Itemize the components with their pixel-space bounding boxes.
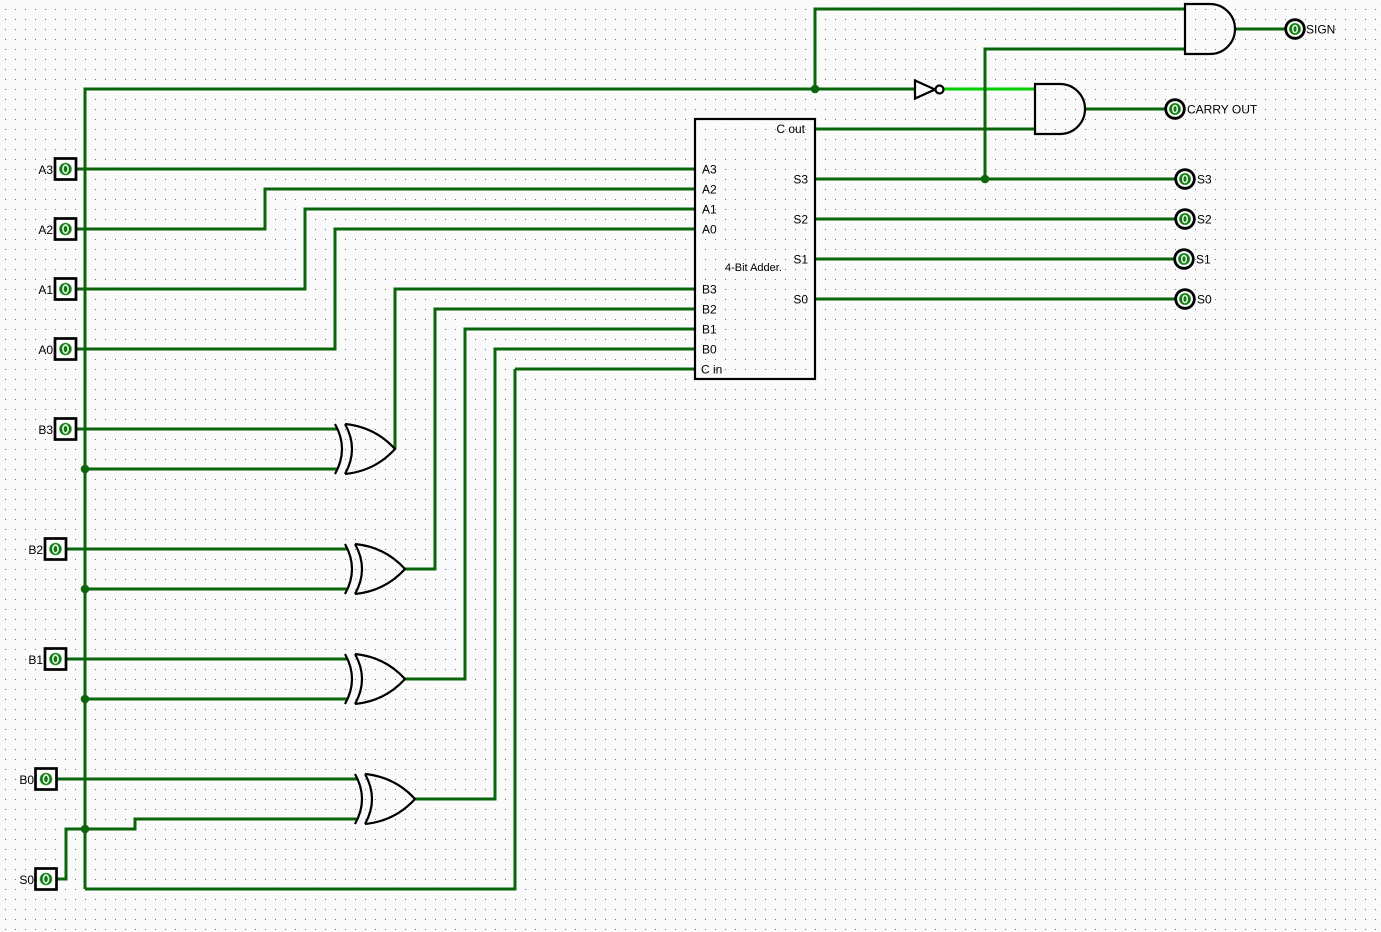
- xor gate U5 (B0): [355, 774, 415, 824]
- and gate U7 (CARRY OUT): [1035, 84, 1085, 134]
- output pin S3: [1176, 170, 1195, 189]
- svg-text:B3: B3: [38, 423, 53, 437]
- wire S0 vertical x=66: [65, 828, 68, 881]
- wire S1: [815, 258, 1176, 261]
- wire A1 h2: [305, 208, 696, 211]
- svg-text:C out: C out: [776, 122, 805, 136]
- junction bus XOR2 input: [81, 585, 90, 594]
- input pin B2: [45, 539, 66, 560]
- input pin B0: [36, 769, 57, 790]
- svg-text:A2: A2: [702, 183, 717, 197]
- svg-text:S0: S0: [19, 873, 34, 887]
- svg-text:A1: A1: [38, 283, 53, 297]
- wire A1 h1: [76, 288, 305, 291]
- wire XOR3 lower input: [85, 698, 347, 701]
- svg-text:S0: S0: [793, 293, 808, 307]
- svg-text:A3: A3: [702, 163, 717, 177]
- output pin SIGN: [1286, 20, 1305, 39]
- svg-text:B2: B2: [702, 303, 717, 317]
- output pin S2: [1176, 210, 1195, 229]
- wire XOR4 output h: [415, 798, 497, 801]
- wire XOR1 lower input: [85, 468, 337, 471]
- svg-text:A2: A2: [38, 223, 53, 237]
- wire S2: [815, 218, 1176, 221]
- wire S0 stub: [56, 878, 68, 881]
- wire XOR3 to adder B1: [465, 328, 696, 331]
- wire XOR2 output h: [405, 568, 437, 571]
- svg-text:S3: S3: [1197, 173, 1212, 187]
- svg-text:4-Bit Adder.: 4-Bit Adder.: [725, 262, 782, 274]
- wire C out to AND2: [815, 128, 1035, 131]
- wire C-in vertical x=515: [514, 369, 517, 891]
- svg-text:A1: A1: [702, 203, 717, 217]
- input pin A0: [55, 339, 76, 360]
- svg-text:B0: B0: [702, 343, 717, 357]
- junction S3 x=985: [981, 175, 990, 184]
- svg-text:S1: S1: [1196, 253, 1211, 267]
- wire XOR3 output vertical x=465: [464, 328, 467, 681]
- svg-text:CARRY OUT: CARRY OUT: [1187, 103, 1258, 117]
- svg-text:C in: C in: [701, 363, 722, 377]
- wire A2 h1: [76, 228, 265, 231]
- xor gate U3 (B2): [345, 544, 405, 594]
- wire vertical x=815 to top bus: [814, 8, 817, 90]
- wire A0 vertical x=335: [334, 228, 337, 351]
- svg-text:B1: B1: [702, 323, 717, 337]
- wire B2 to XOR2: [66, 548, 347, 551]
- svg-text:A0: A0: [702, 223, 717, 237]
- wire left vertical bus x=85: [84, 88, 87, 890]
- svg-text:S0: S0: [1197, 293, 1212, 307]
- junction bus S0 entry: [81, 825, 90, 834]
- wire S0 to bus y=829: [66, 828, 137, 831]
- and gate U6 (SIGN): [1185, 4, 1235, 54]
- xor gate U4 (B1): [345, 654, 405, 704]
- input pin B1: [45, 649, 66, 670]
- wire XOR2 to adder B2: [435, 308, 696, 311]
- output pin CARRY OUT: [1166, 100, 1185, 119]
- output pin S1: [1175, 250, 1194, 269]
- svg-text:B0: B0: [19, 773, 34, 787]
- wire NOT output (high): [944, 88, 1036, 91]
- svg-text:A0: A0: [38, 343, 53, 357]
- wire A3: [76, 168, 696, 171]
- not gate U8: [915, 81, 944, 99]
- junction bus XOR1 input: [81, 465, 90, 474]
- svg-text:B3: B3: [702, 283, 717, 297]
- wire A2 h2: [265, 188, 696, 191]
- xor gate U2 (B3): [335, 424, 395, 474]
- wire A0 h1: [76, 348, 335, 351]
- input pin A3: [55, 159, 76, 180]
- junction top bus x=815: [811, 85, 820, 94]
- wire XOR2 lower input: [85, 588, 347, 591]
- wire A2 vertical x=265: [264, 188, 267, 231]
- wire XOR1 output vertical x=395: [394, 288, 397, 450]
- wire vertical x=985 S3 to AND1: [984, 48, 987, 180]
- 4-Bit Adder box U1: [695, 119, 815, 379]
- wire B3 to XOR1: [76, 428, 337, 431]
- wire XOR4 to adder B0: [495, 348, 696, 351]
- wire B0 to XOR4: [56, 778, 357, 781]
- wire top bus y=89: [85, 88, 915, 91]
- wire bottom bus y=889: [85, 888, 515, 891]
- svg-text:S2: S2: [1197, 213, 1212, 227]
- input pin A1: [55, 279, 76, 300]
- wire B1 to XOR3: [66, 658, 347, 661]
- svg-text:S2: S2: [793, 213, 808, 227]
- wire C-in horizontal: [515, 368, 696, 371]
- wire XOR3 output h: [405, 678, 467, 681]
- junction bus XOR3 input: [81, 695, 90, 704]
- wire S3: [815, 178, 1176, 181]
- svg-text:SIGN: SIGN: [1306, 23, 1335, 37]
- svg-text:S3: S3: [793, 173, 808, 187]
- input pin B3: [55, 419, 76, 440]
- input pin A2: [55, 219, 76, 240]
- wire XOR4 lower input y=819: [135, 818, 357, 821]
- input pin S0: [36, 869, 57, 890]
- wire XOR2 output vertical x=435: [434, 308, 437, 571]
- wire SIGN output: [1235, 28, 1286, 31]
- wire XOR4 output vertical x=495: [494, 348, 497, 801]
- output pin S0: [1176, 290, 1195, 309]
- wire A1 vertical x=305: [304, 208, 307, 291]
- wire AND1 top input y=9: [815, 8, 1185, 11]
- svg-text:B2: B2: [28, 543, 43, 557]
- wire A0 h2: [335, 228, 696, 231]
- svg-text:A3: A3: [38, 163, 53, 177]
- svg-text:B1: B1: [28, 653, 43, 667]
- wire CARRY output: [1085, 108, 1166, 111]
- svg-text:S1: S1: [793, 253, 808, 267]
- wire XOR1 to adder B3: [395, 288, 696, 291]
- wire step vertical x=135: [134, 818, 137, 831]
- wire S0 output: [815, 298, 1176, 301]
- wire AND1 lower input y=49: [985, 48, 1185, 51]
